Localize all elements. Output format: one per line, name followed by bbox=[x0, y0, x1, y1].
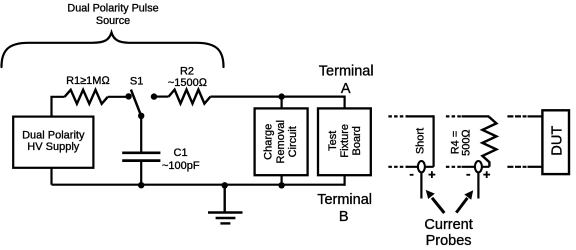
wire test fixture board bottom stub bbox=[344, 175, 346, 186]
current probe P2 bbox=[475, 161, 482, 172]
label Current Probes bbox=[424, 217, 472, 249]
wire R1 to S1 bbox=[108, 96, 127, 98]
current probe P1 bbox=[418, 161, 425, 172]
svg-text:B: B bbox=[339, 209, 349, 225]
node charge removal bottom junction bbox=[278, 182, 284, 188]
label minus P2 bbox=[466, 174, 470, 176]
wire R4 loop bottom bbox=[462, 166, 490, 168]
box Charge Removal Circuit bbox=[255, 108, 308, 175]
wire junction down to charge removal box bbox=[281, 97, 283, 109]
arrow to probe P2 bbox=[456, 198, 467, 213]
svg-text:~100pF: ~100pF bbox=[162, 160, 200, 172]
node ground junction bbox=[222, 182, 228, 188]
wire short loop right bbox=[433, 115, 435, 167]
wire bottom bus bbox=[52, 184, 345, 186]
wire dashed DUT bottom bbox=[507, 166, 526, 168]
label plus P2 bbox=[483, 171, 490, 178]
svg-text:Circuit: Circuit bbox=[287, 126, 299, 157]
capacitor C1 bbox=[122, 151, 160, 154]
box U1 Dual Polarity HV Supply bbox=[13, 117, 93, 168]
wire HV supply top to R1 bbox=[52, 97, 65, 117]
switch S1 pivot dot bbox=[138, 113, 144, 119]
wire corner down to test fixture board top bbox=[344, 96, 346, 110]
wire short loop bottom bbox=[407, 166, 434, 168]
svg-text:Current: Current bbox=[424, 217, 472, 233]
svg-text:Short: Short bbox=[414, 128, 426, 154]
svg-text:Probes: Probes bbox=[426, 233, 472, 249]
svg-text:Terminal: Terminal bbox=[319, 64, 374, 80]
wire probe P2 lead bbox=[477, 172, 479, 198]
svg-text:Board: Board bbox=[351, 126, 363, 155]
svg-text:Test: Test bbox=[327, 131, 339, 151]
wire charge removal bottom stub bbox=[281, 175, 283, 185]
label Terminal A bbox=[319, 64, 374, 98]
svg-text:R2: R2 bbox=[180, 66, 194, 78]
switch S1 lever bbox=[131, 90, 141, 116]
svg-text:Fixture: Fixture bbox=[339, 124, 351, 158]
svg-text:Removal: Removal bbox=[275, 120, 287, 163]
svg-text:S1: S1 bbox=[130, 76, 143, 88]
wire R2 to Terminal A corner bbox=[210, 95, 344, 97]
wire dashed R4-loop bottom left bbox=[446, 166, 463, 168]
node C1 junction bbox=[138, 182, 144, 188]
wire dashed R4-loop top left bbox=[446, 115, 463, 117]
brace bbox=[2, 33, 224, 68]
svg-text:Terminal: Terminal bbox=[317, 192, 372, 208]
wire probe P1 lead bbox=[420, 172, 422, 198]
svg-text:A: A bbox=[341, 81, 351, 97]
svg-text:R1≥1MΩ: R1≥1MΩ bbox=[66, 75, 110, 87]
label plus P1 bbox=[429, 171, 436, 178]
label minus P1 bbox=[410, 174, 414, 176]
wire dashed short-loop bottom left bbox=[388, 166, 407, 168]
wire dashed short-loop top left bbox=[388, 115, 407, 117]
wire C1 to bottom bus bbox=[140, 162, 142, 185]
node junction top of charge removal circuit bbox=[278, 93, 284, 99]
label R4 = 500 ohm bbox=[450, 129, 473, 156]
resistor R2 bbox=[169, 90, 211, 104]
label Terminal B bbox=[317, 192, 372, 225]
label R2 bbox=[168, 66, 208, 89]
svg-text:Dual Polarity: Dual Polarity bbox=[22, 130, 85, 142]
resistor R4 bbox=[482, 116, 496, 166]
svg-text:C1: C1 bbox=[174, 147, 188, 159]
box Test Fixture Board bbox=[318, 108, 371, 175]
ground bbox=[208, 185, 243, 224]
wire DUT bottom lead bbox=[528, 166, 543, 168]
node right contact of S1 bbox=[151, 93, 157, 99]
svg-text:Dual Polarity Pulse: Dual Polarity Pulse bbox=[67, 3, 158, 15]
resistor R1 bbox=[65, 90, 108, 104]
svg-text:DUT: DUT bbox=[550, 126, 566, 156]
wire dashed DUT top bbox=[507, 115, 526, 117]
label Dual Polarity Pulse Source bbox=[67, 3, 158, 27]
svg-text:Charge: Charge bbox=[263, 124, 275, 160]
wire R4 loop top bbox=[462, 115, 490, 117]
wire short loop top bbox=[407, 115, 434, 117]
svg-text:~1500Ω: ~1500Ω bbox=[168, 77, 208, 89]
label C1 bbox=[162, 147, 200, 172]
svg-text:HV Supply: HV Supply bbox=[27, 141, 79, 153]
svg-text:Source: Source bbox=[96, 15, 130, 27]
switch S1 contact dot bbox=[125, 93, 131, 99]
wire DUT top lead bbox=[528, 115, 543, 117]
wire HV supply bottom stub bbox=[50, 167, 52, 185]
arrow to probe P1 bbox=[432, 198, 444, 213]
box DUT bbox=[542, 110, 569, 174]
wire S1 right contact to R2 bbox=[154, 95, 169, 97]
wire S1 pivot down to C1 bbox=[140, 116, 142, 152]
svg-text:500Ω: 500Ω bbox=[460, 129, 472, 156]
